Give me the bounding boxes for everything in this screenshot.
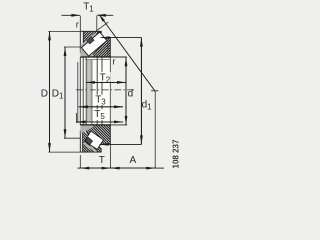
roller column silhouette lines xyxy=(96,57,98,125)
d dimension xyxy=(110,56,127,58)
housing washer bottom cut (hatched) xyxy=(56,130,125,153)
white interior of bearing between cuts xyxy=(80,55,110,126)
svg-text:108 237: 108 237 xyxy=(172,139,181,168)
line B (raceway edge) xyxy=(96,22,109,31)
roller bottom cut (white, clipped by washers) xyxy=(85,131,104,149)
D dimension xyxy=(49,30,81,32)
left face silhouette lines xyxy=(77,62,79,123)
cage silhouette gray band xyxy=(88,60,91,122)
label A xyxy=(128,154,139,165)
svg-text:A: A xyxy=(130,155,137,166)
d1 dimension xyxy=(101,37,142,39)
axis tick at sphere centre xyxy=(151,90,158,92)
svg-text:r: r xyxy=(112,56,115,67)
inner double line of left face xyxy=(82,32,84,52)
svg-text:r: r xyxy=(76,19,79,30)
T / A extension lines bottom xyxy=(79,155,81,168)
right face silhouette xyxy=(109,57,111,125)
gray cage band along bottom roller lower-left side xyxy=(84,143,96,151)
bore edge line bottom xyxy=(80,124,110,126)
inner double line of left face bottom xyxy=(81,132,83,152)
label T bottom xyxy=(97,154,107,165)
T5 dimension xyxy=(77,121,123,123)
T3 dimension xyxy=(79,106,123,108)
housing washer top cut (hatched) xyxy=(57,31,122,53)
roller top cut (white) xyxy=(81,32,107,56)
D1 dimension xyxy=(64,46,80,48)
gray cage wedge top cut xyxy=(80,49,93,57)
cage bar inside bottom roller (hatched) xyxy=(85,137,92,144)
T1 dimension arrows xyxy=(62,14,81,16)
svg-text:d: d xyxy=(128,88,134,99)
svg-text:T: T xyxy=(99,155,105,166)
T2 dimension xyxy=(86,81,126,83)
diagonal sphere line with arrow xyxy=(104,21,155,91)
inner line of right face xyxy=(107,40,109,57)
gray cage wedge bottom cut xyxy=(80,125,93,133)
T5 extension line xyxy=(76,113,78,123)
axis centerline dash-dot xyxy=(76,89,134,91)
svg-text:D: D xyxy=(41,88,48,99)
step silhouette below bore xyxy=(85,59,110,61)
cage bar inside top roller (hatched) xyxy=(87,37,94,44)
mid silhouette line xyxy=(91,60,93,125)
A dimension xyxy=(111,167,156,169)
gray cage band along roller upper-left side xyxy=(81,34,96,47)
bore edge line top xyxy=(80,56,110,58)
shaft washer top cut (hatched) xyxy=(59,33,135,58)
T1 extension lines xyxy=(79,16,81,31)
T dimension xyxy=(80,167,110,169)
shaft washer bottom cut (hatched) xyxy=(59,124,135,149)
